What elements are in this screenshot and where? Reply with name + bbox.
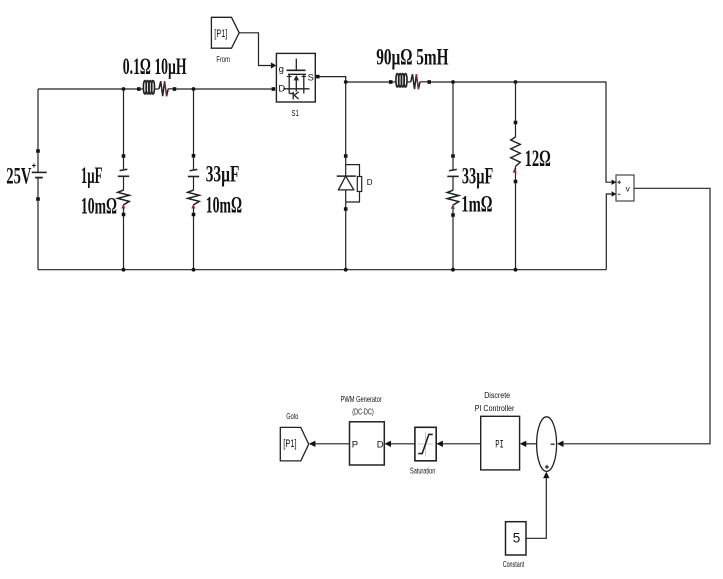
port square: V1 top <box>36 149 40 153</box>
svg-text:[P1]: [P1] <box>283 438 296 450</box>
constant block (5) <box>506 522 527 555</box>
From block [P1] <box>211 17 239 48</box>
svg-text:v: v <box>626 184 631 194</box>
svg-text:D: D <box>367 178 373 187</box>
svg-text:1µF: 1µF <box>81 163 103 188</box>
node: 33uF output cap junction <box>451 80 455 84</box>
node: bottom rail junction R load <box>514 268 518 272</box>
PWM generator (DC-DC) block <box>350 422 385 465</box>
port square: V1 bottom <box>36 197 40 201</box>
wire: constant to sum plus input <box>526 478 546 538</box>
svg-text:0.1Ω 10µH: 0.1Ω 10µH <box>123 54 187 79</box>
wire: top-right rail <box>346 82 612 182</box>
svg-text:1mΩ: 1mΩ <box>461 192 492 217</box>
wire: PWM generator output to Goto <box>315 443 350 445</box>
svg-text:S1: S1 <box>291 108 299 118</box>
port square: S1 drain input <box>272 87 276 91</box>
svg-text:Discrete: Discrete <box>484 390 510 400</box>
capacitor C1 1uF with ESR branch <box>118 89 130 270</box>
svg-text:g: g <box>279 64 284 75</box>
svg-text:Goto: Goto <box>286 411 298 421</box>
svg-text:33µF: 33µF <box>206 162 240 187</box>
port square: C2 bottom <box>192 213 196 217</box>
port square: L1 left <box>137 87 141 91</box>
input port arrow: voltmeter plus <box>612 180 617 185</box>
port square: L2 right <box>427 80 431 84</box>
discrete PI controller block U1 <box>481 416 520 470</box>
svg-text:PWM Generator: PWM Generator <box>341 394 382 404</box>
arrowhead into S1 gate <box>271 62 276 68</box>
svg-text:10mΩ: 10mΩ <box>206 193 242 218</box>
node: bottom rail junction C2 <box>192 268 196 272</box>
series RL branch L2 90uohm 5mH <box>393 74 428 90</box>
port square: R load top <box>514 121 518 125</box>
red current-direction mark R load <box>513 168 517 173</box>
port square: C3 top <box>451 154 455 158</box>
port square: S1 source output <box>316 75 320 79</box>
arrowhead into PI controller <box>520 441 527 447</box>
node: 33uF branch junction on top rail <box>192 87 196 91</box>
svg-text:10mΩ: 10mΩ <box>81 194 117 219</box>
svg-text:[P1]: [P1] <box>214 28 227 40</box>
red current-direction mark C3 <box>451 204 455 209</box>
arrowhead into sum minus input <box>557 441 564 447</box>
port square: C3 bottom <box>451 213 455 217</box>
svg-text:33µF: 33µF <box>462 164 493 189</box>
node: switch node junction (diode branch) <box>344 80 348 84</box>
red tint on L1 resistor <box>165 81 167 96</box>
port square: L2 left <box>389 80 393 84</box>
arrowhead into saturation <box>436 441 443 447</box>
red current-direction mark C2 <box>191 204 195 209</box>
svg-text:D: D <box>377 439 384 450</box>
node: bottom rail junction C3 <box>451 268 455 272</box>
port square: diode top <box>344 154 348 158</box>
svg-text:D: D <box>278 84 285 95</box>
port square: diode bottom <box>344 207 348 211</box>
sum block <box>537 417 557 472</box>
capacitor C3 33uF with 1mohm ESR branch <box>447 82 459 270</box>
wire: sum output to PI controller <box>526 443 537 445</box>
port square: C1 top <box>122 154 126 158</box>
series RL branch L1 0.1ohm 10uH <box>141 81 173 97</box>
node: bottom rail junction diode <box>344 268 348 272</box>
svg-text:PI Controller: PI Controller <box>475 403 515 413</box>
Goto block [P1] <box>280 427 308 461</box>
arrowhead into sum plus input <box>543 472 549 479</box>
capacitor C2 33uF with ESR branch <box>188 89 200 270</box>
red current-direction mark C1 <box>121 204 125 209</box>
node: bottom rail junction C1 <box>122 268 126 272</box>
port square: C2 top <box>192 154 196 158</box>
wire: S1 source to switch node <box>320 77 346 82</box>
saturation block <box>415 427 436 461</box>
svg-text:From: From <box>216 54 230 64</box>
port square: R load bottom <box>514 180 518 184</box>
wire: PI controller output to saturation <box>443 443 481 445</box>
port square: L1 right <box>173 87 177 91</box>
svg-text:Constant: Constant <box>503 559 525 569</box>
wire: top-left rail <box>38 88 272 90</box>
svg-text:12Ω: 12Ω <box>525 146 551 171</box>
svg-text:90µΩ 5mH: 90µΩ 5mH <box>376 44 448 69</box>
svg-text:25V: 25V <box>6 164 31 189</box>
node: 12ohm load junction <box>514 80 518 84</box>
port square: C1 bottom <box>122 213 126 217</box>
svg-text:Saturation: Saturation <box>410 465 435 475</box>
svg-text:5: 5 <box>513 530 521 545</box>
DC voltage source V1 25V <box>32 89 47 270</box>
node: 1uF branch junction on top rail <box>122 87 126 91</box>
wire: voltmeter output feedback to sum <box>563 188 710 443</box>
resistor R load 12ohm branch <box>511 82 521 270</box>
arrowhead into Goto <box>309 441 316 447</box>
wire: saturation output to PWM generator <box>391 443 415 445</box>
svg-text:PI: PI <box>495 439 504 451</box>
svg-text:S: S <box>308 72 314 83</box>
voltage measurement block V <box>616 175 634 201</box>
diode D with snubber branch <box>337 82 362 270</box>
svg-text:P: P <box>352 439 358 450</box>
wire: bottom rail to voltmeter minus <box>606 194 612 270</box>
svg-text:(DC-DC): (DC-DC) <box>352 406 374 416</box>
arrowhead into PWM generator D input <box>385 441 392 447</box>
wire: From to S1 gate <box>239 33 271 66</box>
MOSFET switch S1 block <box>276 53 315 102</box>
wire: bottom return rail <box>38 269 606 271</box>
input port arrow: voltmeter minus <box>612 191 617 196</box>
red tint on L2 resistor <box>416 74 418 89</box>
